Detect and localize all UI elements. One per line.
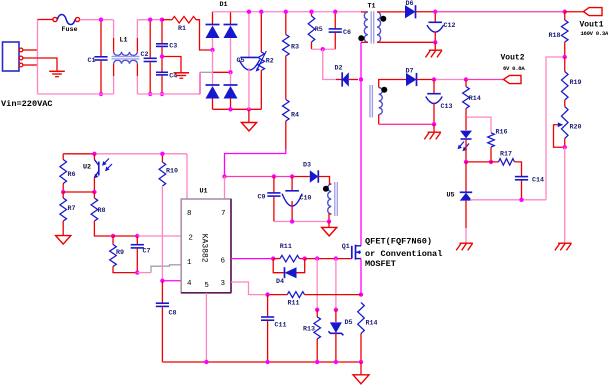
svg-text:Fuse: Fuse bbox=[62, 26, 78, 34]
junction C12 return bbox=[433, 40, 437, 44]
port Vout1 bbox=[584, 8, 603, 16]
capacitor C13 bbox=[433, 80, 435, 94]
fuse F1 bbox=[53, 17, 57, 21]
junction top bus C5 bbox=[247, 10, 251, 14]
svg-text:160V 0.3A: 160V 0.3A bbox=[581, 30, 608, 37]
svg-text:3: 3 bbox=[221, 280, 226, 288]
wire D5 branch riser bbox=[335, 259, 337, 310]
wire pin7 riser bbox=[224, 177, 226, 200]
wire L1 to R1 node bbox=[137, 19, 162, 21]
capacitor C9 bbox=[273, 177, 275, 193]
diode D1a (bridge top-left) bbox=[212, 12, 214, 25]
junction D6 C12 bbox=[433, 10, 437, 14]
junction LED cathode node bbox=[464, 160, 468, 164]
junction Vout2 node bbox=[464, 77, 468, 81]
junction pin4 node bbox=[160, 279, 164, 283]
wire C12 ground stem bbox=[434, 42, 436, 50]
phase dot secondary 1 bbox=[380, 16, 386, 22]
capacitor C4 bbox=[161, 57, 163, 72]
capacitor C6 bbox=[334, 12, 336, 29]
wire R20 to ground bbox=[564, 147, 566, 243]
svg-text:C2: C2 bbox=[141, 51, 149, 59]
resistor R13 bbox=[316, 310, 318, 317]
junction D5 bus bbox=[334, 360, 338, 364]
diode D1d (bridge bottom-right) bbox=[230, 72, 232, 85]
svg-text:R8: R8 bbox=[98, 207, 106, 215]
diode D7 bbox=[406, 73, 417, 86]
svg-text:C13: C13 bbox=[441, 103, 453, 111]
phase dot primary bbox=[358, 35, 364, 41]
svg-text:4: 4 bbox=[187, 280, 192, 288]
svg-text:L1: L1 bbox=[120, 37, 128, 45]
junction top bus R2 bbox=[259, 10, 263, 14]
wire HV+ top bus bbox=[213, 11, 363, 13]
resistor R20 (trimmer) bbox=[561, 107, 568, 139]
capacitor C1 bbox=[100, 20, 102, 57]
junction C2 bottom bbox=[148, 92, 152, 96]
ground (aux return) bbox=[322, 227, 337, 236]
wire secondary1 return bbox=[377, 41, 435, 43]
junction Vcc bus pin7 bbox=[222, 174, 226, 178]
capacitor C7 bbox=[136, 236, 138, 244]
junction drain D2 bbox=[359, 77, 363, 81]
svg-text:or Conventional: or Conventional bbox=[365, 249, 442, 259]
resistor R18 bbox=[564, 12, 566, 20]
svg-text:R3: R3 bbox=[291, 44, 299, 52]
svg-text:R2: R2 bbox=[266, 58, 274, 66]
junction bridge AC2 node bbox=[228, 70, 232, 74]
transformer T1 auxiliary winding bbox=[328, 184, 332, 214]
wire AC2 to bridge bbox=[213, 71, 231, 73]
junction source node bbox=[359, 292, 363, 296]
junction aux ground bbox=[327, 219, 331, 223]
svg-text:6: 6 bbox=[221, 257, 226, 265]
junction D5 branch bbox=[334, 256, 338, 260]
svg-text:C12: C12 bbox=[444, 22, 456, 30]
diode D3 bbox=[310, 170, 319, 182]
junction R11 D4 bbox=[303, 256, 307, 260]
wire Vout1 port lead bbox=[565, 11, 584, 13]
wire aux return bbox=[274, 221, 329, 223]
svg-text:R18: R18 bbox=[549, 32, 561, 40]
junction R10 top bbox=[160, 152, 164, 156]
wire C13 ground stem bbox=[433, 124, 435, 132]
svg-text:D1: D1 bbox=[220, 1, 228, 9]
wire pin1 lead bbox=[137, 272, 151, 274]
optocoupler U2 phototransistor bbox=[93, 154, 95, 160]
junction C11 bus bbox=[265, 360, 269, 364]
wire R4 to Vcc bus bbox=[225, 149, 286, 177]
wire bottom ground bus bbox=[162, 361, 361, 363]
junction R6 R7 bbox=[61, 190, 65, 194]
svg-text:R9: R9 bbox=[116, 249, 124, 257]
wire drain line bbox=[360, 42, 362, 246]
wire D7 to Vout2 node bbox=[434, 79, 466, 81]
svg-text:R11: R11 bbox=[280, 243, 292, 251]
junction R13 branch bbox=[315, 256, 319, 260]
junction C14 ref bbox=[519, 198, 523, 202]
junction U2 collector bbox=[92, 152, 96, 156]
ground (control return) bbox=[353, 375, 369, 384]
wire J1 bottom pin bbox=[23, 64, 38, 66]
wire pin5 lead bbox=[205, 293, 207, 362]
transformer T1 primary winding bbox=[361, 11, 368, 13]
svg-text:T1: T1 bbox=[368, 3, 376, 11]
svg-text:C11: C11 bbox=[275, 322, 287, 330]
wire R14 to R16 bbox=[466, 117, 491, 133]
capacitor C12 bbox=[434, 12, 436, 22]
resistor R2 (varistor) bbox=[260, 12, 262, 52]
node A bottom junction bbox=[99, 92, 103, 96]
resistor R4 bbox=[283, 100, 290, 122]
capacitor C5 (bulk) bbox=[248, 12, 250, 57]
wire ground stem main bbox=[360, 362, 362, 375]
svg-text:D4: D4 bbox=[276, 278, 284, 286]
junction pin3 C11 bbox=[265, 292, 269, 296]
svg-text:QFET(FQF7N60): QFET(FQF7N60) bbox=[365, 237, 432, 247]
svg-text:U2: U2 bbox=[83, 164, 91, 172]
junction bottom bus D1d bbox=[228, 107, 232, 111]
diode D1c (bridge bottom-left) bbox=[212, 50, 214, 86]
wire R6-U2 bottom row bbox=[63, 191, 94, 193]
junction R9 top bbox=[111, 234, 115, 238]
svg-text:R1: R1 bbox=[178, 25, 186, 33]
resistor R7 bbox=[62, 192, 64, 198]
wire pin8 riser bbox=[186, 154, 188, 199]
capacitor C2 bbox=[149, 20, 151, 58]
svg-text:U5: U5 bbox=[447, 192, 455, 200]
wire left riser bbox=[37, 20, 39, 94]
svg-text:R19: R19 bbox=[570, 79, 582, 87]
svg-text:D7: D7 bbox=[406, 68, 414, 76]
ground (R7 return) bbox=[56, 236, 71, 245]
ground (Y-cap earth) bbox=[174, 72, 190, 74]
svg-text:C4: C4 bbox=[169, 73, 177, 81]
junction pin6 R11 bbox=[271, 256, 275, 260]
transformer T1 auxiliary winding core bbox=[334, 182, 336, 216]
wire node A to L1 bbox=[101, 19, 114, 21]
wire bottom AC bus left bbox=[38, 93, 114, 95]
wire clamp bottom bbox=[312, 48, 336, 50]
resistor R11 (gate) bbox=[273, 258, 280, 260]
junction C3 top bbox=[160, 18, 164, 22]
svg-text:C8: C8 bbox=[169, 310, 177, 318]
junction C3-C4 midpoint bbox=[160, 54, 164, 58]
junction bridge AC1 node bbox=[210, 48, 214, 52]
junction R13 bus bbox=[315, 360, 319, 364]
svg-text:R14: R14 bbox=[366, 320, 378, 328]
capacitor C10 bbox=[291, 177, 293, 191]
zener diode D5 bbox=[335, 310, 337, 322]
junction R14 bus bbox=[359, 360, 363, 364]
wire to C7 pin2 bbox=[113, 235, 137, 237]
wire Vref rail bbox=[63, 153, 94, 155]
svg-text:C5: C5 bbox=[237, 57, 245, 65]
transformer T1 second secondary core bbox=[369, 85, 371, 118]
wire pin6 row bbox=[231, 258, 273, 260]
svg-text:Q1: Q1 bbox=[342, 243, 350, 251]
junction Vout1 R18 bbox=[563, 10, 567, 14]
wire pin4 lead bbox=[162, 280, 181, 282]
svg-text:D6: D6 bbox=[406, 0, 414, 8]
resistor R14 (feedback upper) bbox=[465, 80, 467, 87]
svg-text:R10: R10 bbox=[166, 168, 178, 176]
junction R20 bottom bbox=[563, 145, 567, 149]
svg-text:MOSFET: MOSFET bbox=[365, 259, 396, 269]
svg-text:R11: R11 bbox=[288, 300, 300, 308]
ground (U5 chassis) bbox=[460, 242, 473, 244]
svg-text:8: 8 bbox=[187, 210, 192, 218]
resistor R10 bbox=[161, 154, 163, 162]
junction C13 return bbox=[432, 122, 436, 126]
junction R16 bottom bbox=[489, 160, 493, 164]
wire ref riser bbox=[546, 57, 565, 200]
wire Vout1 bus bbox=[435, 11, 565, 13]
svg-text:D5: D5 bbox=[345, 319, 353, 327]
resistor R3 bbox=[285, 12, 287, 35]
junction C7 bottom bbox=[135, 270, 139, 274]
resistor R14 (source) bbox=[358, 303, 365, 334]
junction C2 top bbox=[148, 18, 152, 22]
resistor R17 bbox=[499, 159, 515, 166]
svg-text:1: 1 bbox=[187, 259, 192, 267]
junction R18 R19 bbox=[563, 55, 567, 59]
capacitor C11 bbox=[267, 295, 269, 317]
svg-text:Vin=220VAC: Vin=220VAC bbox=[1, 99, 53, 109]
connector J1 (AC inlet) bbox=[3, 42, 20, 71]
junction top bus R3 bbox=[284, 10, 288, 14]
resistor R19 bbox=[564, 57, 566, 72]
junction C7 top bbox=[135, 234, 139, 238]
wire R20 wiper bbox=[554, 125, 565, 148]
junction C9 top bbox=[272, 174, 276, 178]
wire Vout2 port lead bbox=[466, 79, 504, 81]
svg-text:7: 7 bbox=[221, 210, 226, 218]
wire C3-C4 midpoint to earth bbox=[164, 57, 181, 73]
svg-text:R6: R6 bbox=[68, 171, 76, 179]
svg-text:C14: C14 bbox=[532, 177, 544, 185]
junction pin5 bus bbox=[204, 360, 208, 364]
svg-text:R13: R13 bbox=[303, 326, 315, 334]
transformer T1 core bbox=[370, 11, 372, 43]
svg-text:R16: R16 bbox=[496, 129, 508, 137]
optocoupler U2 LED bbox=[465, 117, 467, 130]
wire aux ground stem bbox=[328, 222, 330, 228]
ground (primary return) bbox=[241, 123, 256, 132]
node A top junction bbox=[99, 18, 103, 22]
svg-text:D2: D2 bbox=[335, 65, 343, 73]
diode D4 bbox=[273, 259, 284, 273]
svg-text:2: 2 bbox=[188, 235, 193, 243]
transformer T1 secondary winding bbox=[377, 12, 381, 42]
svg-text:D3: D3 bbox=[303, 162, 311, 170]
junction D7 C13 bbox=[432, 77, 436, 81]
wire secondary2 return bbox=[379, 123, 434, 125]
resistor R6 bbox=[62, 154, 64, 160]
svg-text:Vout2: Vout2 bbox=[501, 54, 525, 63]
wire U5 ref line bbox=[470, 199, 546, 201]
capacitor C3 bbox=[161, 20, 163, 44]
wire R3 to R4 bbox=[285, 56, 287, 100]
ground (divider chassis) bbox=[558, 242, 571, 244]
ground (input earth) bbox=[49, 70, 65, 72]
wire ground stem bbox=[248, 109, 250, 122]
wire source line bbox=[360, 259, 362, 295]
svg-text:R7: R7 bbox=[68, 205, 76, 213]
shunt regulator U5 (TL431) bbox=[465, 162, 467, 192]
phase dot auxiliary bbox=[323, 186, 329, 192]
wire bottom AC bus right bbox=[137, 93, 200, 95]
diode D6 bbox=[405, 5, 416, 18]
resistor R1 bbox=[162, 19, 172, 21]
junction R13 top bbox=[315, 308, 319, 312]
wire gate row bbox=[305, 258, 352, 260]
junction bottom bus ground stem bbox=[247, 107, 251, 111]
resistor R11 (sense) bbox=[268, 294, 288, 296]
wire pin2 lead bbox=[137, 235, 181, 237]
svg-text:C3: C3 bbox=[169, 43, 177, 51]
wire Vcc bus bbox=[225, 176, 293, 178]
svg-text:R20: R20 bbox=[570, 124, 582, 132]
svg-text:R5: R5 bbox=[315, 26, 323, 34]
wire R13 branch riser bbox=[316, 259, 318, 310]
ground (output2 chassis) bbox=[428, 131, 441, 133]
svg-text:C10: C10 bbox=[300, 195, 312, 203]
resistor R5 bbox=[311, 12, 313, 16]
diode D2 bbox=[336, 79, 342, 81]
wire fuse to node A bbox=[80, 19, 101, 21]
wire U5 anode bbox=[465, 201, 467, 228]
capacitor C8 bbox=[161, 281, 163, 303]
junction C10 bottom bbox=[290, 219, 294, 223]
svg-text:C6: C6 bbox=[343, 29, 351, 37]
wire pin3 lead bbox=[231, 282, 268, 295]
transistor Q1 (MOSFET) bbox=[351, 246, 353, 259]
junction top bus C6 bbox=[333, 10, 337, 14]
inductor L1 (common-mode choke) bbox=[113, 20, 115, 38]
wire riser to fuse bbox=[38, 19, 54, 21]
phase dot secondary 2 bbox=[381, 87, 387, 93]
wire AC2 riser bbox=[199, 72, 201, 94]
svg-text:R4: R4 bbox=[291, 112, 299, 120]
svg-text:R17: R17 bbox=[500, 151, 512, 159]
wire J1 middle pin to ground bbox=[23, 58, 57, 71]
resistor R16 bbox=[488, 133, 495, 147]
wire bridge bottom bus bbox=[213, 108, 262, 110]
diode D1b (bridge top-right) bbox=[230, 12, 232, 25]
svg-text:R14: R14 bbox=[469, 95, 481, 103]
svg-text:C7: C7 bbox=[143, 248, 151, 256]
port Vout2 bbox=[504, 75, 522, 83]
resistor R8 bbox=[93, 192, 95, 198]
wire feedback row bbox=[466, 161, 499, 163]
wire AC2 gray segment bbox=[200, 71, 213, 73]
svg-text:C1: C1 bbox=[88, 57, 96, 65]
resistor R9 bbox=[112, 236, 114, 245]
svg-text:5: 5 bbox=[204, 282, 209, 290]
op-amp U1 KA3882 (PWM controller) bbox=[181, 199, 231, 293]
junction C4 bottom bbox=[160, 92, 164, 96]
wire clamp to D2 bbox=[323, 49, 336, 79]
junction D5 top bbox=[334, 308, 338, 312]
junction top bus R5 bbox=[309, 10, 313, 14]
ground (output1 chassis) bbox=[429, 49, 442, 51]
svg-text:KA3882: KA3882 bbox=[200, 234, 209, 263]
capacitor C14 bbox=[515, 176, 528, 178]
junction C10 top bbox=[290, 174, 294, 178]
junction clamp node bbox=[321, 47, 325, 51]
junction U2 emitter R8 bbox=[92, 190, 96, 194]
svg-text:C9: C9 bbox=[258, 194, 266, 202]
svg-text:6V 0.8A: 6V 0.8A bbox=[503, 65, 525, 72]
transformer T1 second secondary winding bbox=[379, 88, 383, 115]
wire J1 top pin to left riser bbox=[23, 49, 38, 51]
svg-text:Vout1: Vout1 bbox=[580, 20, 604, 29]
svg-text:U1: U1 bbox=[200, 188, 208, 196]
